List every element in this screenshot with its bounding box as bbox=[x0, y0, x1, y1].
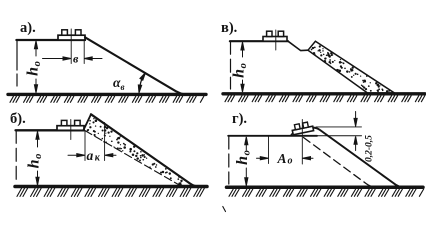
fill band v bbox=[308, 41, 395, 93]
svg-text:А: А bbox=[277, 151, 287, 166]
top surface line b bbox=[16, 129, 84, 131]
machine plate b bbox=[57, 126, 84, 131]
left border line v bbox=[230, 41, 232, 89]
label 0,2-0,5 bbox=[365, 135, 375, 162]
svg-text:г).: г). bbox=[232, 111, 247, 127]
dimension v right line bbox=[86, 58, 102, 60]
dimension A0 left line bbox=[257, 157, 267, 159]
original slope line b (inner) bbox=[85, 131, 181, 187]
svg-text:б).: б). bbox=[10, 111, 26, 127]
svg-text:в: в bbox=[73, 52, 79, 66]
ground line v bbox=[223, 92, 425, 95]
top surface line g bbox=[228, 135, 317, 137]
stipple dots b bbox=[87, 118, 183, 186]
machine plate g (tilted) bbox=[291, 121, 313, 135]
upper slope segment v bbox=[288, 41, 308, 50]
bolt a2 bbox=[75, 30, 81, 35]
dimension v left line bbox=[43, 58, 70, 60]
mound left edge g bbox=[291, 133, 294, 136]
fill wedge b left edge bbox=[84, 114, 91, 130]
h0 label a bbox=[25, 61, 44, 76]
dimension A0 ext left bbox=[268, 137, 270, 164]
svg-text:а: а bbox=[87, 148, 94, 163]
ground line b bbox=[15, 185, 207, 189]
slope line a bbox=[85, 37, 185, 94]
stipple dots v bbox=[311, 45, 391, 92]
bolt b1 bbox=[61, 120, 67, 125]
dimension ak left line bbox=[68, 154, 83, 156]
bolt a1 bbox=[62, 30, 68, 35]
top line extension g bbox=[317, 135, 362, 137]
svg-text:а).: а). bbox=[20, 20, 36, 36]
svg-text:о: о bbox=[288, 156, 293, 167]
ground hatch v bbox=[225, 96, 425, 102]
h0 dimension b bbox=[37, 135, 39, 184]
ground line g bbox=[227, 185, 424, 189]
bolt g1 bbox=[294, 124, 300, 130]
upper extension line g bbox=[316, 126, 362, 128]
left border line g bbox=[228, 136, 230, 184]
top surface line v bbox=[230, 40, 288, 42]
dimension ak right line bbox=[107, 154, 117, 156]
stray mark bottom bbox=[223, 207, 226, 212]
h0 label g bbox=[234, 150, 253, 165]
top surface line a bbox=[16, 39, 85, 41]
crest and solid slope g bbox=[314, 128, 405, 188]
dimension A0 right line bbox=[305, 157, 314, 159]
bolt v1 bbox=[267, 31, 272, 36]
left border line b bbox=[15, 130, 17, 184]
left border line a bbox=[16, 40, 18, 91]
bolt g2 bbox=[303, 122, 309, 128]
dimension ak ext right bbox=[104, 123, 106, 161]
bolt b2 bbox=[75, 120, 81, 125]
extension line v right bbox=[83, 40, 85, 64]
h0 dimension g bbox=[245, 140, 247, 184]
svg-text:в).: в). bbox=[221, 20, 237, 36]
bolt v2 bbox=[278, 31, 283, 36]
ground line a bbox=[8, 93, 206, 96]
vertical dim arrows g bbox=[355, 112, 357, 124]
centerline b bbox=[70, 120, 72, 140]
centerline g bbox=[301, 120, 303, 165]
h0 label v bbox=[231, 63, 250, 78]
centerline v bbox=[275, 30, 277, 50]
svg-text:0,2-0,5: 0,2-0,5 bbox=[365, 135, 375, 162]
ground hatch g bbox=[229, 189, 424, 196]
ground hatch b bbox=[17, 188, 204, 196]
ground hatch a bbox=[10, 96, 204, 102]
h0 dimension a bbox=[35, 44, 37, 90]
original slope dashed g bbox=[304, 138, 376, 188]
h0 dimension v bbox=[242, 45, 244, 90]
angle arc alpha bbox=[139, 74, 145, 92]
dimension ak ext left bbox=[84, 131, 86, 161]
machine plate v bbox=[263, 37, 287, 42]
machine plate a bbox=[58, 35, 85, 40]
centerline a bbox=[70, 29, 72, 64]
fill wedge b outer slope bbox=[91, 114, 198, 186]
h0 label b bbox=[26, 154, 45, 169]
